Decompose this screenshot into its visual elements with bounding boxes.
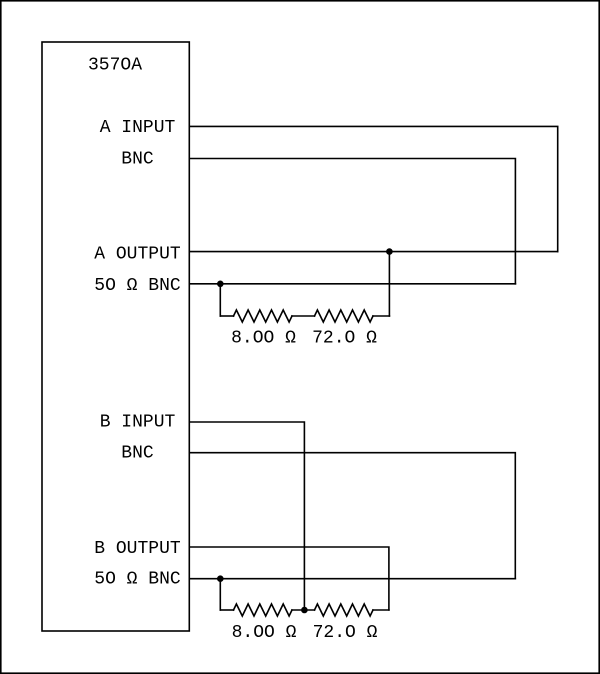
svg-text:BNC: BNC <box>121 443 154 463</box>
svg-text:8.OO Ω: 8.OO Ω <box>232 623 297 643</box>
svg-text:8.OO Ω: 8.OO Ω <box>231 328 296 348</box>
svg-text:B OUTPUT: B OUTPUT <box>94 539 181 559</box>
svg-text:BNC: BNC <box>121 149 154 169</box>
svg-text:357OA: 357OA <box>88 56 142 76</box>
svg-text:A INPUT: A INPUT <box>100 118 176 138</box>
svg-text:A OUTPUT: A OUTPUT <box>94 244 181 264</box>
svg-text:72.O Ω: 72.O Ω <box>312 328 377 348</box>
svg-text:B INPUT: B INPUT <box>100 412 176 432</box>
svg-text:5O Ω BNC: 5O Ω BNC <box>94 569 181 589</box>
svg-text:5O Ω BNC: 5O Ω BNC <box>94 276 181 296</box>
svg-text:72.O Ω: 72.O Ω <box>313 623 378 643</box>
